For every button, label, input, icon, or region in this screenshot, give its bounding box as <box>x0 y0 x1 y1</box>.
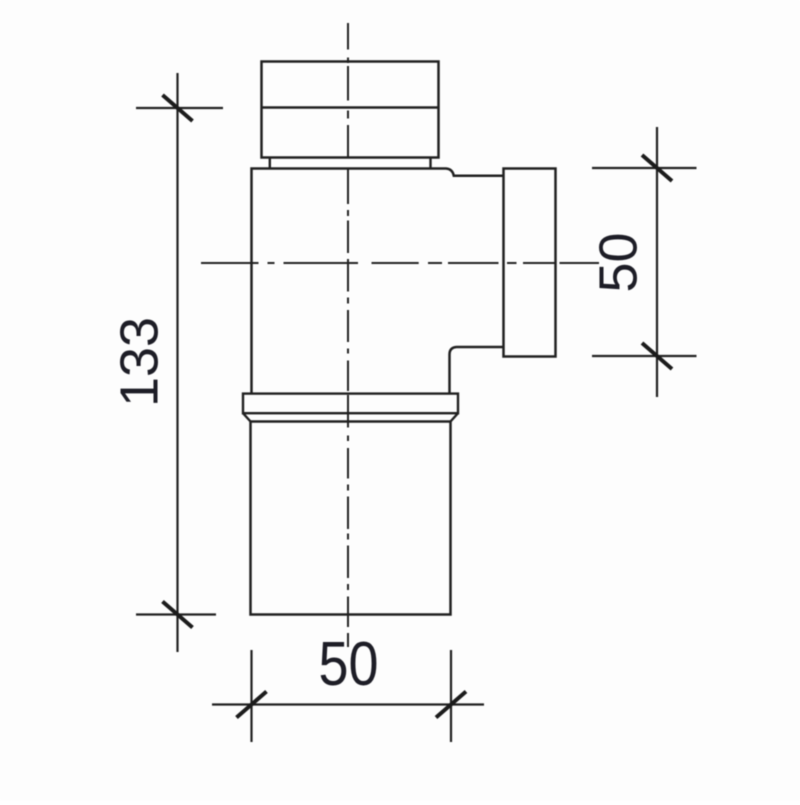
collar right chamfer <box>451 413 459 421</box>
branch bottom connector <box>450 347 504 394</box>
extension line bottom of 133 <box>136 613 216 615</box>
body outline with right step <box>252 169 504 394</box>
tick top of 50 right <box>642 155 672 181</box>
svg-text:50: 50 <box>588 232 648 292</box>
cap mid line <box>262 106 439 109</box>
socket collar <box>243 394 458 414</box>
extension line bottom of 50 right <box>592 355 697 357</box>
lower pipe outline <box>251 422 451 615</box>
collar left chamfer <box>243 413 251 421</box>
dimension line 50 right <box>656 127 658 397</box>
vertical centerline <box>347 23 349 647</box>
tick right of 50 bottom <box>436 692 466 718</box>
extension line right of 50 bottom <box>450 650 452 742</box>
tick bottom of 133 <box>163 602 193 628</box>
tick top of 133 <box>163 95 193 121</box>
branch flange <box>504 169 556 357</box>
tick left of 50 bottom <box>237 692 267 718</box>
horizontal centerline <box>201 262 599 264</box>
extension line top of 50 right <box>592 167 697 169</box>
neck left edge <box>269 158 271 169</box>
dimension line 50 bottom <box>212 703 484 705</box>
svg-text:50: 50 <box>319 630 379 699</box>
svg-text:133: 133 <box>109 317 169 407</box>
extension line top of 133 <box>136 107 223 109</box>
neck right edge <box>429 158 431 169</box>
socket depth line <box>251 420 451 422</box>
dimension line 133 <box>176 73 178 652</box>
tick bottom of 50 right <box>642 343 672 369</box>
cap outline <box>262 62 439 158</box>
extension line left of 50 bottom <box>250 650 252 742</box>
